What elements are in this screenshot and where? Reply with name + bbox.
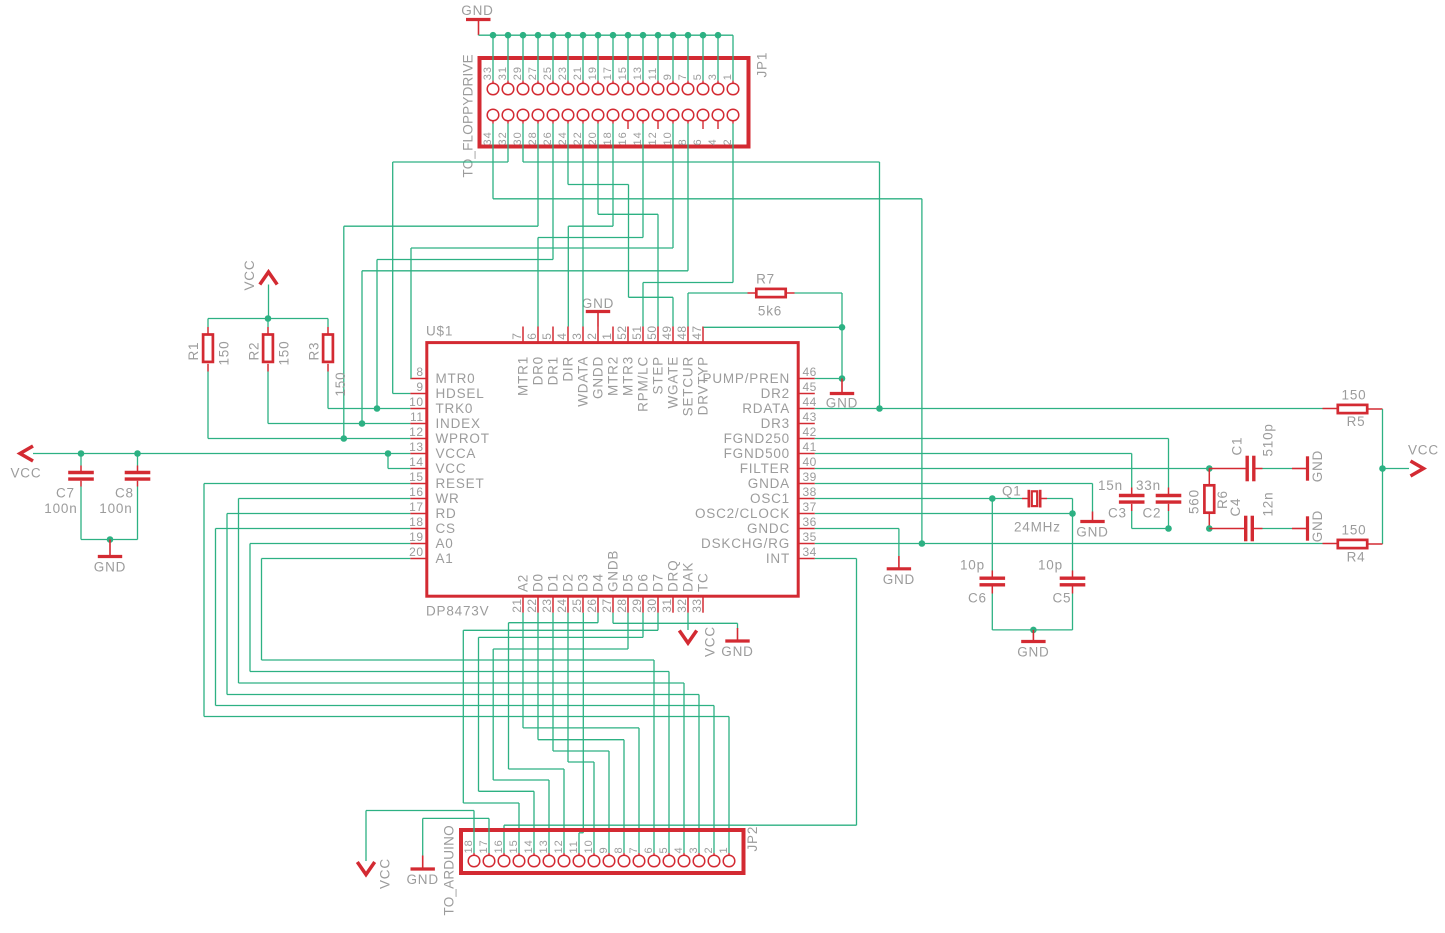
svg-text:19: 19 [587,66,599,80]
svg-text:28: 28 [527,131,539,145]
JP1 pin 2 [727,109,739,121]
wire net A0 U1 to JP2 [250,543,410,545]
svg-text:8: 8 [416,365,423,379]
svg-text:WR: WR [436,491,460,506]
svg-text:46: 46 [803,365,817,379]
U1 pin 19 A0 [410,543,427,545]
svg-text:GNDA: GNDA [748,476,790,491]
wire net MTR0 JP1-10 to U1-8 [672,124,674,249]
svg-text:GNDD: GNDD [591,356,606,399]
capacitor C2 33n [1168,488,1170,495]
svg-text:560: 560 [1187,489,1202,514]
svg-text:Q1: Q1 [1002,484,1022,499]
supply VCC above R1 R2 R3 [260,272,277,285]
svg-text:27: 27 [527,66,539,80]
IC U$1 DP8473V body [427,343,798,597]
svg-text:33n: 33n [1136,478,1161,493]
svg-text:D4: D4 [591,573,606,592]
ground GND below C5 C6 [1032,630,1034,642]
svg-text:23: 23 [557,66,569,80]
wire net RD U1 to JP2 [227,513,410,515]
svg-text:24: 24 [557,131,569,145]
U1 pin 8 MTR0 [410,378,427,380]
U1 pin 20 A1 [410,558,427,560]
U1 pin 37 OSC2/CLOCK [798,513,815,515]
ground GND at JP2 17 [423,817,489,819]
ground GND of GNDB [737,623,739,628]
wire FILTER row [815,468,1210,470]
svg-text:DSKCHG/RG: DSKCHG/RG [701,536,790,551]
junction GND bus col 13 [685,32,692,39]
svg-text:5k6: 5k6 [758,304,782,319]
svg-text:WDATA: WDATA [576,356,591,407]
capacitor C8 100n [134,450,141,457]
wire net RDATA JP1-30 down to RDATA row [522,124,524,163]
svg-text:13: 13 [632,66,644,80]
junction GND bus col 1 [505,32,512,39]
JP2 pin 11 [578,853,580,855]
wire net D7 U1-30 to JP2 15 [657,613,659,631]
JP2 pin 14 [533,853,535,855]
svg-text:GNDB: GNDB [606,550,621,592]
svg-text:GND: GND [1310,450,1325,482]
junction GND bus col 6 [580,32,587,39]
svg-text:25: 25 [570,598,584,612]
U1 pin 31 DRQ [672,596,674,613]
wire crystal caps to ground [992,629,1072,631]
svg-text:32: 32 [497,131,509,145]
crystal Q1 24MHz [992,498,1022,500]
wire net CS U1 to JP2 [216,528,411,530]
wire OSC1 row [815,498,993,500]
U1 pin 13 VCCA [410,453,427,455]
svg-text:GND: GND [1076,525,1108,540]
junction GND bus col 5 [565,32,572,39]
JP1 pin 19 [597,35,599,80]
svg-text:15n: 15n [1098,478,1123,493]
svg-text:D1: D1 [546,573,561,592]
svg-text:1: 1 [718,846,730,853]
svg-text:20: 20 [587,131,599,145]
svg-text:TRK0: TRK0 [436,401,474,416]
wire PUMP/PREN to junction [815,378,842,380]
JP2 pin 6 [653,853,655,855]
junction INDEX [359,420,366,427]
JP2 pin 9 [608,853,610,855]
junction GND bus col 7 [595,32,602,39]
svg-text:RDATA: RDATA [742,401,790,416]
resistor R6 560 [1208,469,1210,485]
svg-text:DR3: DR3 [761,416,790,431]
svg-text:20: 20 [409,545,423,559]
JP1 pin 25 [552,35,554,80]
U1 pin 32 DAK [687,596,689,613]
JP2 pin 10 [593,853,595,855]
supply VCC left arrow [20,446,33,461]
capacitor C5 10p [1072,514,1074,571]
JP2 pin 13 [548,853,550,855]
U1 pin 4 DIR [567,327,569,343]
junction WPROT [341,435,348,442]
wire INT to JP2 16 [815,558,857,560]
svg-text:16: 16 [617,131,629,145]
wire GNDC row [815,528,899,530]
svg-text:22: 22 [525,598,539,612]
svg-text:10: 10 [662,131,674,145]
U1 pin 44 RDATA [798,408,815,410]
svg-text:31: 31 [660,598,674,612]
wire GNDA row [815,483,1093,485]
svg-text:5: 5 [658,846,670,853]
svg-text:28: 28 [615,598,629,612]
JP1 pin 9 [672,35,674,80]
svg-text:A1: A1 [436,551,454,566]
svg-text:150: 150 [333,372,348,397]
svg-text:5: 5 [692,73,704,80]
wire DSKCHG row to R4 [815,543,1323,545]
U1 pin 3 WDATA [582,327,584,343]
svg-text:GND: GND [1310,510,1325,542]
JP1 pin 24 [562,109,574,121]
svg-text:C1: C1 [1230,437,1245,456]
svg-text:12: 12 [409,425,423,439]
svg-text:18: 18 [409,515,423,529]
svg-text:DR1: DR1 [546,356,561,385]
svg-text:C3: C3 [1108,506,1127,521]
U1 pin 28 D5 [627,596,629,613]
svg-text:22: 22 [572,131,584,145]
svg-text:34: 34 [803,545,817,559]
svg-text:GND: GND [883,572,915,587]
svg-text:2: 2 [722,138,734,145]
svg-text:7: 7 [628,846,640,853]
junction GND bus col 10 [640,32,647,39]
wire net A2 U1-21 to JP2 7 [522,613,524,728]
junction GND bus col 12 [670,32,677,39]
wire VCCA to VCC pin [387,454,389,469]
JP2 pin 15 [518,853,520,855]
svg-text:HDSEL: HDSEL [436,386,485,401]
junction C7 C8 GND [107,536,114,543]
svg-text:D5: D5 [621,573,636,592]
svg-text:R2: R2 [247,342,262,361]
svg-text:45: 45 [803,380,817,394]
svg-text:26: 26 [542,131,554,145]
JP1 pin 26 [547,109,559,121]
svg-text:24MHz: 24MHz [1014,520,1061,535]
wire R7 right to GND column [795,292,843,294]
svg-text:R7: R7 [756,272,775,287]
U1 pin 25 D3 [582,596,584,613]
svg-text:15: 15 [508,839,520,853]
svg-text:GND: GND [582,296,614,311]
svg-text:100n: 100n [99,501,132,516]
junction DRVTYP [839,324,846,331]
U1 pin 12 WPROT [410,438,427,440]
U1 pin 30 D7 [657,596,659,613]
svg-text:GND: GND [406,872,438,887]
JP2 pin 17 [488,853,490,855]
svg-text:RESET: RESET [436,476,485,491]
svg-text:17: 17 [409,500,423,514]
wire net D2 U1-24 to JP2 10 [567,613,569,762]
wire net INDEX JP1-8 to INDEX row [687,124,689,271]
svg-text:GNDC: GNDC [747,521,790,536]
svg-text:8: 8 [677,138,689,145]
wire net STEP JP1-20 to U1-50 [597,124,599,215]
svg-text:38: 38 [803,485,817,499]
JP1 pin 16 [622,109,634,121]
wire VCC row to U1 VCCA [33,453,410,455]
svg-text:25: 25 [542,66,554,80]
junction GND bus col 8 [610,32,617,39]
wire R1 bottom [207,372,209,439]
svg-text:6: 6 [692,138,704,145]
junction TRK0 [374,405,381,412]
JP2 pin 18 [473,853,475,855]
U1 pin 2 GNDD [597,327,599,343]
svg-text:510p: 510p [1261,423,1276,456]
JP1 pin 23 [567,35,569,80]
svg-text:42: 42 [803,425,817,439]
wire net D1 U1-23 to JP2 9 [552,613,554,751]
svg-text:RPM/LC: RPM/LC [636,356,651,412]
svg-text:19: 19 [409,530,423,544]
svg-text:MTR3: MTR3 [621,356,636,396]
U1 pin 10 TRK0 [410,408,427,410]
ground GND at JP1 [466,18,491,21]
U1 pin 21 A2 [522,596,524,613]
connector JP2 TO_ARDUINO box [461,830,744,873]
svg-text:7: 7 [510,333,524,340]
svg-text:12: 12 [553,839,565,853]
svg-text:14: 14 [409,455,423,469]
svg-text:10p: 10p [960,558,985,573]
svg-text:R3: R3 [307,342,322,361]
svg-text:31: 31 [497,66,509,80]
svg-text:14: 14 [523,839,535,853]
svg-text:14: 14 [632,131,644,145]
JP2 pin 2 [713,853,715,855]
svg-text:C7: C7 [56,486,75,501]
U1 pin 15 RESET [410,483,427,485]
svg-text:47: 47 [690,325,704,339]
svg-text:TO_FLOPPYDRIVE: TO_FLOPPYDRIVE [461,54,476,177]
svg-text:DRVTYP: DRVTYP [696,356,711,415]
capacitor C4 12n [1209,528,1244,530]
U1 pin 11 INDEX [410,423,427,425]
svg-text:150: 150 [1342,388,1367,403]
ground GND at U1 pin 2 GNDD [597,312,599,327]
svg-text:150: 150 [217,341,232,366]
svg-text:100n: 100n [44,501,77,516]
U1 pin 16 WR [410,498,427,500]
JP1 pin 4 [712,109,724,121]
svg-text:3: 3 [688,846,700,853]
svg-text:MTR0: MTR0 [436,371,476,386]
wire C7 C8 ground link [81,539,138,541]
resistor R1 150 [207,319,209,328]
svg-text:DR2: DR2 [761,386,790,401]
svg-text:MTR2: MTR2 [606,356,621,396]
svg-text:C8: C8 [115,486,134,501]
svg-text:U$1: U$1 [426,324,453,339]
svg-text:33: 33 [690,598,704,612]
svg-text:3: 3 [707,73,719,80]
JP1 pin 1 [732,81,734,84]
svg-text:C5: C5 [1053,591,1072,606]
U1 pin 7 MTR1 [522,327,524,343]
U1 pin 1 MTR2 [612,327,614,343]
U1 pin 46 PUMP/PREN [798,378,815,380]
JP1 pin 20 [592,109,604,121]
svg-text:12: 12 [647,131,659,145]
junction GND bus col 14 [700,32,707,39]
JP1 pin 31 [507,35,509,80]
svg-text:5: 5 [540,333,554,340]
svg-text:A0: A0 [436,536,454,551]
U1 pin 42 FGND250 [798,438,815,440]
wire R1 R2 R3 top rail [208,318,328,320]
JP2 pin 16 [503,853,505,855]
svg-text:D2: D2 [561,573,576,592]
ground GND below C7 C8 [109,540,111,557]
svg-text:FGND250: FGND250 [724,431,790,446]
wire net DR0 JP1-14 to U1-6 [642,124,644,238]
resistor R3 150 [327,319,329,328]
svg-text:VCC: VCC [242,260,257,291]
ground GND of GNDC [898,556,900,569]
ground GND right of C4 [1292,528,1308,530]
U1 pin 6 DR0 [537,327,539,343]
U1 pin 50 STEP [657,327,659,343]
svg-text:30: 30 [512,131,524,145]
svg-text:13: 13 [538,839,550,853]
U1 pin 33 TC [702,596,704,613]
junction GND bus col 9 [625,32,632,39]
svg-text:TO_ARDUINO: TO_ARDUINO [442,825,457,915]
wire GND bus above JP1 [479,34,734,36]
junction VCCA drop [385,450,392,457]
JP1 pin 28 [532,109,544,121]
U1 pin 41 FGND500 [798,453,815,455]
junction GND bus col 0 [490,32,497,39]
svg-text:WGATE: WGATE [666,356,681,409]
svg-text:INT: INT [766,551,790,566]
svg-text:MTR1: MTR1 [516,356,531,396]
svg-text:9: 9 [416,380,423,394]
junction OSC1 [989,495,996,502]
svg-text:4: 4 [673,846,685,853]
svg-text:16: 16 [409,485,423,499]
resistor R4 150 [1368,543,1383,545]
svg-text:10: 10 [583,839,595,853]
wire net WR U1 to JP2 [239,498,411,500]
svg-text:RD: RD [436,506,457,521]
svg-text:33: 33 [482,66,494,80]
U1 pin 14 VCC [410,468,427,470]
svg-text:DR0: DR0 [531,356,546,385]
svg-text:9: 9 [662,73,674,80]
junction VCC node right [1379,465,1386,472]
supply VCC at JP2 18 [366,810,474,812]
svg-text:29: 29 [512,66,524,80]
svg-text:C2: C2 [1143,506,1162,521]
wire SETCUR to R7 [687,293,689,327]
resistor R2 150 [267,319,269,328]
junction RDATA [876,405,883,412]
wire net D0 U1-22 to JP2 8 [537,613,539,740]
wire R2 bottom [267,372,269,424]
svg-text:30: 30 [645,598,659,612]
JP1 pin 34 [487,109,499,121]
JP2 pin 5 [668,853,670,855]
wire RDATA row to R5 [815,408,1323,410]
ground GND right of C1 [1292,468,1308,470]
JP1 pin 14 [637,109,649,121]
JP1 pin 8 [682,109,694,121]
svg-text:JP2: JP2 [745,826,760,852]
junction R6 bottom [1206,525,1213,532]
svg-text:7: 7 [677,73,689,80]
junction FILTER [1206,465,1213,472]
JP1 pin 27 [537,35,539,80]
U1 pin 18 CS [410,528,427,530]
svg-text:10p: 10p [1038,558,1063,573]
svg-text:1: 1 [600,333,614,340]
U1 pin 45 DR2 [798,393,815,395]
svg-text:WPROT: WPROT [436,431,490,446]
junction PUMP/PREN [839,375,846,382]
svg-text:VCC: VCC [436,461,467,476]
junction C2 bottom [1165,525,1172,532]
svg-text:R5: R5 [1347,414,1366,429]
JP1 pin 33 [492,35,494,80]
junction GND bus col 4 [550,32,557,39]
JP2 pin 8 [623,853,625,855]
svg-text:21: 21 [572,66,584,80]
svg-text:GND: GND [721,644,753,659]
wire net DIR JP1-18 to U1-4 [612,124,614,227]
JP1 pin 22 [577,109,589,121]
svg-text:39: 39 [803,470,817,484]
JP1 pin 15 [627,35,629,80]
svg-text:VCCA: VCCA [436,446,477,461]
U1 pin 35 DSKCHG/RG [798,543,815,545]
svg-text:VCC: VCC [1408,443,1439,458]
svg-text:11: 11 [647,67,659,80]
svg-text:17: 17 [478,839,490,853]
U1 pin 40 FILTER [798,468,815,470]
JP2 pin 12 [563,853,565,855]
wire net WPROT JP1-28 to WPROT row [537,124,539,227]
svg-text:1: 1 [722,73,734,80]
svg-text:44: 44 [803,395,817,409]
wire net WGATE JP1-24 to U1-49 [567,124,569,185]
svg-text:16: 16 [493,839,505,853]
svg-text:40: 40 [803,455,817,469]
svg-text:150: 150 [277,341,292,366]
svg-text:9: 9 [598,846,610,853]
wire R5 to VCC node [1382,409,1384,469]
svg-text:TC: TC [696,572,711,592]
svg-text:51: 51 [630,325,644,339]
junction GND bus col 11 [655,32,662,39]
svg-text:13: 13 [409,440,423,454]
wire OSC2 row [815,513,1073,515]
U1 pin 26 D4 [597,596,599,613]
ground GND of GNDA [1092,512,1094,522]
